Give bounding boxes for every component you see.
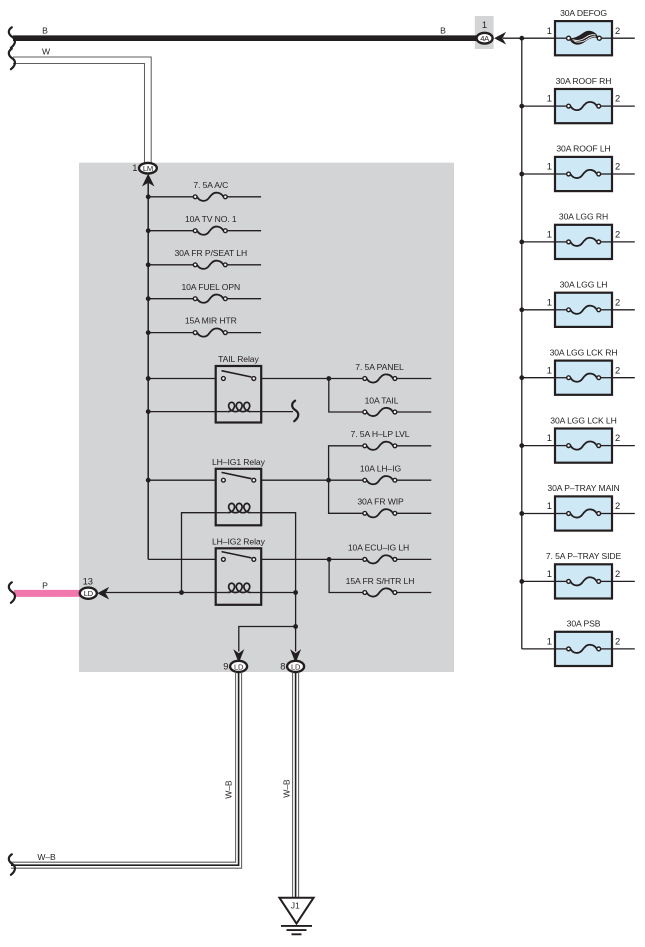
svg-text:LH–IG1 Relay: LH–IG1 Relay	[212, 457, 266, 467]
relay LH-IG1 switch contacts	[222, 472, 256, 482]
svg-text:2: 2	[615, 25, 620, 36]
wire bus to LH-IG1 switch	[148, 479, 216, 481]
fuse P-TRAY MAIN box	[555, 496, 612, 530]
fuse TV NO.1 symbol	[193, 227, 227, 235]
svg-text:2: 2	[615, 161, 620, 172]
svg-text:LD: LD	[234, 662, 244, 671]
svg-text:W–B: W–B	[37, 852, 56, 862]
svg-text:7. 5A A/C: 7. 5A A/C	[193, 180, 228, 190]
junction on bus at ROOF LH	[519, 172, 524, 177]
fuse FR S/HTR LH symbol	[363, 588, 397, 596]
fuse FUEL OPN wires	[148, 298, 193, 300]
svg-text:30A DEFOG: 30A DEFOG	[560, 8, 607, 18]
main bus (vertical) inside relay block	[147, 183, 149, 559]
junction at LH-IG2 coil right	[293, 590, 298, 595]
fuse ECU-IG LH symbol	[363, 555, 397, 563]
break symbol on wire W	[9, 49, 15, 70]
relay TAIL (U-TAIL) switch contacts	[222, 371, 256, 381]
wire TAIL relay coil to break	[261, 411, 293, 413]
svg-text:P: P	[42, 580, 48, 590]
arrow into connector LM (pointing up)	[143, 175, 153, 185]
wire LH-IG1 coil right, down to 8 LD	[261, 513, 295, 652]
wire TAIL relay switch to junction	[261, 378, 364, 380]
connector 8 LD oval	[287, 661, 304, 672]
svg-text:W–B: W–B	[281, 779, 291, 798]
branch wire down to fuse TAIL	[329, 379, 364, 413]
fuse TV NO.1 wires	[148, 230, 193, 232]
wire from connector 4A to fuse bus	[503, 37, 556, 39]
svg-text:15A MIR HTR: 15A MIR HTR	[185, 316, 237, 326]
branch wire up to fuse H-LP LVL	[329, 446, 364, 480]
svg-text:13: 13	[83, 575, 93, 586]
svg-text:LD: LD	[291, 662, 301, 671]
svg-text:4A: 4A	[480, 34, 490, 43]
svg-text:30A LGG LCK LH: 30A LGG LCK LH	[550, 415, 616, 425]
svg-text:10A TV NO. 1: 10A TV NO. 1	[185, 214, 237, 224]
wire LH-IG1 switch to junction	[261, 479, 364, 481]
svg-text:9: 9	[223, 660, 228, 671]
relay TAIL (U-TAIL) coil	[228, 402, 251, 411]
svg-text:2: 2	[615, 229, 620, 240]
fuse MIR HTR symbol	[193, 328, 227, 336]
fuse ROOF RH row wires	[522, 105, 555, 107]
fuse LGG LH row wires	[522, 309, 555, 311]
fuse PSB row wires	[522, 648, 555, 650]
junction on main bus at LH-IG1 switch	[146, 478, 151, 483]
wire bus to TAIL relay switch	[148, 378, 216, 380]
wire W-B from 8 LD down to ground (double-line)	[292, 672, 294, 897]
svg-text:1: 1	[547, 568, 552, 579]
fuse FR P/SEAT LH symbol	[193, 261, 227, 269]
connector LM oval	[139, 163, 157, 174]
junction on main bus at TAIL relay switch	[146, 376, 151, 381]
ground J1 triangle	[279, 898, 313, 924]
fuse LGG LCK LH row wires	[522, 445, 555, 447]
fuse LGG LCK RH row wires	[522, 377, 555, 379]
arrow into connector 9 LD (pointing down)	[234, 651, 243, 662]
junction on bus at P-TRAY MAIN	[519, 511, 524, 516]
break symbol on bottom W-B wire	[9, 854, 15, 875]
junction on bus at LGG RH	[519, 240, 524, 245]
svg-text:2: 2	[615, 364, 620, 375]
relay block (junction block) gray background	[79, 163, 454, 672]
svg-text:10A LH–IG: 10A LH–IG	[360, 464, 402, 474]
svg-text:1: 1	[547, 500, 552, 511]
svg-text:LH–IG2 Relay: LH–IG2 Relay	[212, 536, 266, 546]
svg-text:30A FR WIP: 30A FR WIP	[357, 497, 404, 507]
svg-text:7. 5A H–LP LVL: 7. 5A H–LP LVL	[351, 429, 410, 439]
fuse FR WIP symbol	[363, 509, 397, 517]
wire LH-IG2 switch to junction	[261, 558, 364, 560]
fuse LGG LH box	[555, 293, 612, 327]
svg-text:1: 1	[547, 364, 552, 375]
junction node after LH-IG1	[326, 478, 331, 483]
svg-text:2: 2	[615, 296, 620, 307]
svg-text:B: B	[42, 25, 48, 35]
connector 9 LD oval	[230, 661, 247, 672]
svg-text:1: 1	[482, 19, 487, 30]
arrow into connector 4A (pointing left)	[495, 33, 505, 43]
fuse DEFOG box	[555, 21, 612, 55]
fuse P-TRAY MAIN row wires	[522, 513, 555, 515]
wire W (double-line) from left edge to connector LM	[13, 57, 151, 163]
svg-text:2: 2	[615, 568, 620, 579]
junction on main bus at fuse MIR HTR	[146, 330, 151, 335]
wire W-B from 9 LD down and left (double-line)	[11, 672, 236, 862]
svg-text:TAIL Relay: TAIL Relay	[218, 354, 259, 364]
svg-text:2: 2	[615, 93, 620, 104]
svg-text:2: 2	[615, 432, 620, 443]
fuse FUEL OPN symbol	[193, 295, 227, 303]
wire B (thick black horizontal)	[13, 35, 478, 41]
junction on main bus at TAIL relay coil	[146, 409, 151, 414]
fuse DEFOG row wires	[612, 37, 635, 39]
relay TAIL (U-TAIL) box	[216, 366, 262, 423]
svg-text:30A LGG LCK RH: 30A LGG LCK RH	[550, 347, 618, 357]
break symbol after TAIL relay coil	[292, 401, 298, 422]
junction at 9 LD branch	[293, 624, 298, 629]
fuse H-LP LVL symbol	[363, 442, 397, 450]
wire LH-IG2 coil right to vertical	[261, 592, 295, 594]
wire bus to TAIL relay coil	[148, 411, 216, 413]
junction on bus at DEFOG	[519, 36, 524, 41]
fuse A/C wires	[148, 196, 193, 198]
relay LH-IG1 coil	[228, 503, 251, 512]
wire LH-IG1 coil left, down to LD wire	[182, 513, 216, 593]
junction at LH-IG1 coil drop	[179, 590, 184, 595]
branch wire to 9 LD	[239, 627, 296, 652]
junction on bus at LGG LCK LH	[519, 443, 524, 448]
junction on main bus at fuse TV NO.1	[146, 228, 151, 233]
svg-text:30A LGG LH: 30A LGG LH	[560, 280, 608, 290]
svg-text:30A PSB: 30A PSB	[567, 619, 601, 629]
fuse LGG RH row wires	[522, 241, 555, 243]
svg-text:J1: J1	[291, 901, 300, 911]
fuse A/C symbol	[193, 193, 227, 201]
svg-text:30A FR P/SEAT LH: 30A FR P/SEAT LH	[175, 248, 248, 258]
connector 13 LD oval	[80, 588, 97, 599]
arrow into connector 8 LD (pointing down)	[291, 651, 300, 662]
junction on bus at LGG LCK RH	[519, 375, 524, 380]
svg-text:10A ECU–IG LH: 10A ECU–IG LH	[348, 543, 409, 553]
svg-text:30A ROOF LH: 30A ROOF LH	[556, 144, 610, 154]
svg-text:1: 1	[132, 162, 137, 173]
fuse ROOF LH box	[555, 157, 612, 191]
wire from connector 13 LD to LH-IG2 coil	[106, 592, 216, 594]
fuse LGG RH box	[555, 225, 612, 259]
connector 4A oval	[477, 33, 493, 44]
svg-text:10A FUEL OPN: 10A FUEL OPN	[181, 282, 240, 292]
svg-text:1: 1	[547, 229, 552, 240]
fuse LH-IG symbol	[363, 476, 397, 484]
svg-text:30A LGG RH: 30A LGG RH	[559, 212, 608, 222]
svg-text:B: B	[440, 25, 446, 35]
junction on bus at P-TRAY SIDE	[519, 579, 524, 584]
junction on bus at ROOF RH	[519, 104, 524, 109]
fuse ROOF LH row wires	[522, 173, 555, 175]
svg-text:1: 1	[547, 25, 552, 36]
svg-text:2: 2	[615, 636, 620, 647]
svg-text:1: 1	[547, 296, 552, 307]
fuse LGG LCK RH box	[555, 361, 612, 395]
fuse PANEL symbol	[363, 374, 397, 382]
svg-text:1: 1	[547, 636, 552, 647]
svg-text:1: 1	[547, 161, 552, 172]
arrow into connector 13 LD (pointing left)	[98, 588, 108, 598]
svg-text:10A TAIL: 10A TAIL	[365, 395, 399, 405]
svg-text:7. 5A PANEL: 7. 5A PANEL	[355, 362, 404, 372]
fuse TAIL symbol	[363, 408, 397, 416]
svg-text:1: 1	[547, 432, 552, 443]
junction on main bus at fuse FUEL OPN	[146, 296, 151, 301]
relay LH-IG2 coil	[228, 583, 251, 592]
branch wire down to fuse FR S/HTR LH	[329, 559, 364, 592]
fuse LGG LCK LH box	[555, 429, 612, 463]
svg-text:1: 1	[547, 93, 552, 104]
wire P (pink)	[14, 590, 81, 597]
svg-text:30A P–TRAY MAIN: 30A P–TRAY MAIN	[547, 483, 619, 493]
fuse P-TRAY SIDE row wires	[522, 580, 555, 582]
svg-text:W–B: W–B	[224, 780, 234, 799]
fuse FR P/SEAT LH wires	[148, 264, 193, 266]
right fuse bus (vertical)	[521, 38, 523, 649]
junction on main bus at fuse FR P/SEAT LH	[146, 262, 151, 267]
svg-text:LD: LD	[84, 589, 94, 598]
svg-text:30A ROOF RH: 30A ROOF RH	[556, 76, 612, 86]
ground hatching	[281, 926, 312, 934]
fuse MIR HTR wires	[148, 332, 193, 334]
break symbol on wire P	[9, 582, 15, 603]
junction node after LH-IG2	[327, 557, 332, 562]
break symbol on wire B	[9, 27, 15, 48]
svg-text:15A FR S/HTR LH: 15A FR S/HTR LH	[346, 576, 415, 586]
junction on bus at LGG LH	[519, 307, 524, 312]
wire bus corner to LH-IG2 switch	[148, 558, 216, 560]
fuse ROOF RH box	[555, 89, 612, 123]
svg-text:LM: LM	[143, 164, 153, 173]
junction node after TAIL relay	[326, 376, 331, 381]
relay LH-IG2 box	[216, 548, 262, 605]
relay LH-IG2 switch contacts	[222, 552, 256, 562]
svg-text:7. 5A P–TRAY SIDE: 7. 5A P–TRAY SIDE	[546, 551, 622, 561]
fuse PSB box	[555, 632, 612, 666]
branch wire down to fuse FR WIP	[329, 480, 364, 513]
gray background behind connector 4A	[475, 16, 494, 49]
svg-text:2: 2	[615, 500, 620, 511]
junction on main bus at fuse A/C	[146, 194, 151, 199]
svg-text:8: 8	[280, 660, 285, 671]
fuse P-TRAY SIDE box	[555, 564, 612, 598]
svg-text:W: W	[42, 46, 51, 56]
relay LH-IG1 box	[216, 469, 262, 526]
